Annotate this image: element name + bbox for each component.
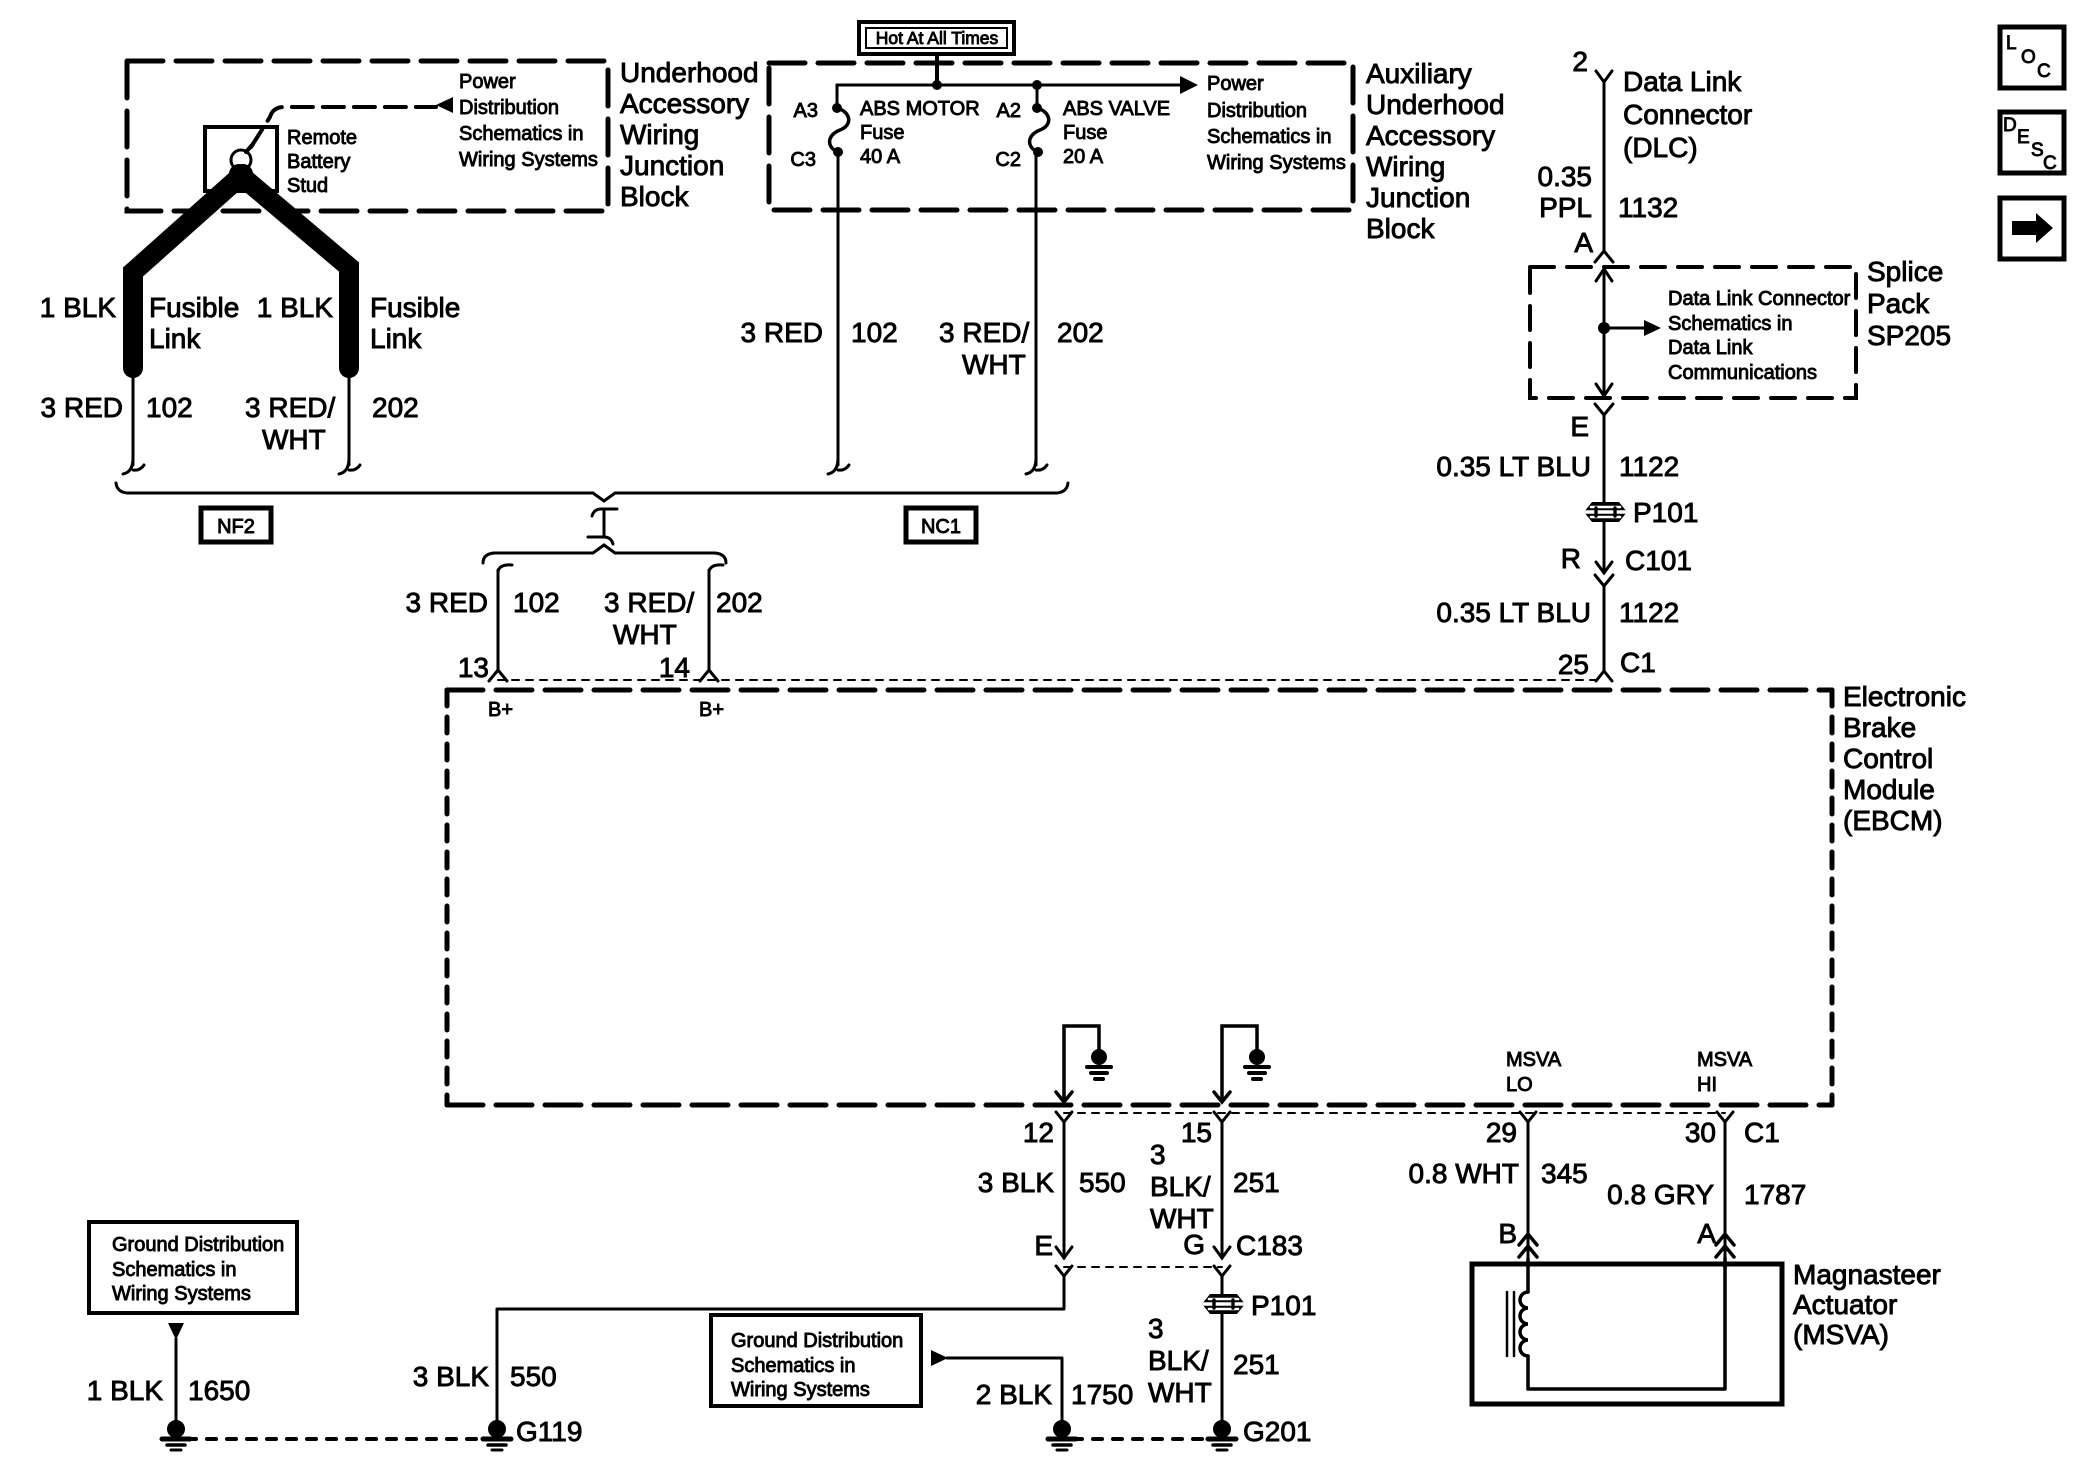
svg-text:C1: C1 xyxy=(1744,1117,1780,1148)
label: MSVA HI xyxy=(1697,1049,1753,1096)
label: A2 / C2 xyxy=(995,100,1021,171)
svg-text:1787: 1787 xyxy=(1744,1179,1806,1210)
svg-text:Schematics in: Schematics in xyxy=(1668,313,1793,335)
svg-text:ABS VALVE: ABS VALVE xyxy=(1063,98,1170,120)
svg-text:Block: Block xyxy=(620,181,689,212)
label: Ground Distribution Schematics in Wiring Systems (middle) xyxy=(731,1330,903,1401)
svg-text:1 BLK: 1 BLK xyxy=(40,292,117,323)
terminal A chevron xyxy=(1595,251,1613,262)
junction dot at hot feed xyxy=(932,80,942,90)
wire 550 pin 12 xyxy=(1063,1122,1066,1258)
svg-text:Communications: Communications xyxy=(1668,362,1817,384)
svg-text:Wiring: Wiring xyxy=(1366,151,1445,182)
wire end foot left xyxy=(123,458,144,474)
svg-text:BLK/: BLK/ xyxy=(1148,1345,1209,1376)
svg-text:D: D xyxy=(2003,115,2017,136)
ground symbol (1650) xyxy=(162,1420,190,1450)
DLC pin2 fork xyxy=(1596,71,1612,82)
svg-text:30: 30 xyxy=(1685,1117,1716,1148)
label: 2 BLK 1750 xyxy=(976,1379,1134,1410)
label: 3 BLK 550 (G119 wire) xyxy=(413,1361,557,1392)
label: Power Distribution Schematics in Wiring Systems (left) xyxy=(459,71,598,171)
svg-text:Junction: Junction xyxy=(620,150,724,181)
coil to bottom wire xyxy=(1528,1264,1725,1389)
right-pointing reference triangle xyxy=(1180,76,1198,94)
pin 30 fork xyxy=(1717,1112,1733,1122)
SECTION: top-left underhood block xyxy=(40,57,759,474)
wire 550 to G119 xyxy=(497,1276,1064,1422)
label: 3 BLK/ WHT 251 (lower) xyxy=(1148,1313,1280,1408)
svg-text:G119: G119 xyxy=(516,1416,582,1447)
svg-text:C2: C2 xyxy=(995,149,1021,171)
svg-text:Junction: Junction xyxy=(1366,182,1470,213)
svg-text:Power: Power xyxy=(1207,73,1264,95)
pin A double chevron xyxy=(1716,1234,1734,1257)
svg-text:Control: Control xyxy=(1843,743,1933,774)
svg-text:(MSVA): (MSVA) xyxy=(1793,1319,1889,1350)
svg-text:Power: Power xyxy=(459,71,516,93)
svg-text:Magnasteer: Magnasteer xyxy=(1793,1259,1941,1290)
svg-text:3 RED: 3 RED xyxy=(406,587,488,618)
svg-text:A3: A3 xyxy=(794,100,818,122)
svg-text:345: 345 xyxy=(1541,1158,1588,1189)
svg-text:Schematics in: Schematics in xyxy=(459,123,584,145)
ground link dashed line left xyxy=(187,1437,486,1441)
label: 0.35 LT BLU 1122 (lower) xyxy=(1436,597,1679,628)
svg-text:0.8 WHT: 0.8 WHT xyxy=(1409,1158,1519,1189)
label: 3 RED/WHT 202 (fuse wire) xyxy=(939,317,1104,380)
Ground Distribution box (left) xyxy=(89,1222,297,1313)
splice reference line xyxy=(1604,327,1645,330)
stud pigtail tick xyxy=(246,144,253,152)
fuse ABS MOTOR element xyxy=(830,108,849,152)
lower distribution brace xyxy=(483,545,726,563)
svg-text:PPL: PPL xyxy=(1539,192,1592,223)
svg-text:251: 251 xyxy=(1233,1167,1280,1198)
wire from Hot box down xyxy=(935,54,939,85)
wire 102 from left link xyxy=(132,372,135,465)
svg-text:WHT: WHT xyxy=(262,424,326,455)
label: 3 RED 102 (left wire) xyxy=(41,392,193,423)
wire 102 below fuse xyxy=(837,152,840,465)
svg-text:Wiring Systems: Wiring Systems xyxy=(731,1379,870,1401)
ground symbol G119 xyxy=(483,1420,511,1450)
svg-text:C: C xyxy=(2043,153,2057,174)
svg-text:1122: 1122 xyxy=(1619,451,1679,482)
SECTION: EBCM box xyxy=(447,681,1966,1422)
label: Ground Distribution Schematics in Wiring Systems (left) xyxy=(112,1234,284,1305)
svg-text:NC1: NC1 xyxy=(921,516,961,538)
svg-text:A: A xyxy=(1574,227,1593,258)
wire 1650 xyxy=(175,1339,178,1422)
svg-text:1 BLK: 1 BLK xyxy=(257,292,334,323)
EBCM dashed box top edge xyxy=(447,688,1832,693)
SECTION: braces and mid wires xyxy=(116,483,1604,683)
Underhood Accessory Wiring Junction Block dashed box xyxy=(127,61,608,211)
pass-through grommet P101 xyxy=(1584,502,1627,522)
svg-text:3: 3 xyxy=(1148,1313,1164,1344)
svg-text:13: 13 xyxy=(458,652,489,683)
wire 251 to P101 xyxy=(1221,1276,1224,1294)
label: 3 RED 102 (fuse wire) xyxy=(741,317,898,348)
svg-text:3 RED/: 3 RED/ xyxy=(604,587,694,618)
svg-text:SP205: SP205 xyxy=(1867,320,1951,351)
svg-text:2: 2 xyxy=(1572,46,1588,77)
svg-text:Data Link: Data Link xyxy=(1668,337,1753,359)
wire end foot xyxy=(1026,458,1047,474)
C101 arrow down xyxy=(1596,562,1612,573)
pin E arrow xyxy=(1056,1247,1072,1258)
svg-text:Wiring Systems: Wiring Systems xyxy=(112,1283,251,1305)
svg-text:Ground Distribution: Ground Distribution xyxy=(731,1330,903,1352)
svg-text:E: E xyxy=(2017,127,2030,148)
label: 3 RED 102 (pin 13 wire) xyxy=(406,587,560,618)
LOC legend box xyxy=(2000,27,2064,88)
C101 lower fork xyxy=(1595,575,1613,586)
wire to C101 xyxy=(1603,522,1606,572)
svg-text:Wiring Systems: Wiring Systems xyxy=(459,149,598,171)
svg-text:0.35 LT BLU: 0.35 LT BLU xyxy=(1436,451,1591,482)
label: 3 RED/WHT 202 (pin 14 wire) xyxy=(604,587,763,650)
svg-text:P101: P101 xyxy=(1633,497,1698,528)
svg-text:Wiring: Wiring xyxy=(620,119,699,150)
label: Fusible Link (right) xyxy=(370,292,460,354)
pin 25 end fork xyxy=(1596,671,1612,681)
wire 1122 upper xyxy=(1603,414,1606,502)
svg-text:A2: A2 xyxy=(997,100,1021,122)
svg-text:1122: 1122 xyxy=(1619,597,1679,628)
label: Data Link Connector (DLC) xyxy=(1623,66,1752,163)
svg-text:MSVA: MSVA xyxy=(1697,1049,1753,1071)
svg-text:Accessory: Accessory xyxy=(1366,120,1495,151)
svg-text:3 RED: 3 RED xyxy=(41,392,123,423)
junction dot left link xyxy=(129,368,137,376)
pin 12 fork xyxy=(1056,1112,1072,1122)
svg-text:Module: Module xyxy=(1843,774,1935,805)
wire 102 to pin 13 xyxy=(498,565,512,572)
svg-text:1750: 1750 xyxy=(1071,1379,1133,1410)
bus brace NF2/NC1 xyxy=(116,483,1068,501)
svg-text:Schematics in: Schematics in xyxy=(1207,126,1332,148)
svg-text:L: L xyxy=(2006,33,2017,54)
pin G lower fork xyxy=(1214,1266,1230,1276)
svg-text:Electronic: Electronic xyxy=(1843,681,1966,712)
pin 29 fork xyxy=(1520,1112,1536,1122)
forward arrow glyph xyxy=(2012,213,2053,243)
dashed reference wire to power distribution note xyxy=(251,107,436,147)
pin 13 end fork xyxy=(489,670,507,681)
wire 1122 lower xyxy=(1603,586,1606,672)
branch into ABS VALVE fuse xyxy=(1036,85,1039,104)
svg-text:3 BLK: 3 BLK xyxy=(413,1361,490,1392)
label: Magnasteer Actuator (MSVA) xyxy=(1793,1259,1941,1350)
svg-text:WHT: WHT xyxy=(1148,1377,1212,1408)
label: Splice Pack SP205 xyxy=(1867,256,1951,351)
svg-text:1132: 1132 xyxy=(1618,192,1678,223)
wire 345 pin 29 xyxy=(1527,1122,1530,1264)
C1 connector line (top, thin dashed) xyxy=(498,679,1604,681)
svg-text:0.8 GRY: 0.8 GRY xyxy=(1607,1179,1714,1210)
pin B double chevron xyxy=(1519,1234,1537,1257)
svg-text:Distribution: Distribution xyxy=(459,97,559,119)
label: 3 BLK 550 xyxy=(978,1167,1126,1198)
bus wire to power distribution arrow xyxy=(837,84,1182,87)
svg-text:202: 202 xyxy=(716,587,763,618)
svg-text:102: 102 xyxy=(146,392,193,423)
svg-text:Schematics in: Schematics in xyxy=(731,1355,856,1377)
splice continuation symbol xyxy=(588,509,617,544)
svg-text:A: A xyxy=(1697,1218,1716,1249)
forward arrow legend box xyxy=(2000,198,2064,259)
svg-text:MSVA: MSVA xyxy=(1506,1049,1562,1071)
svg-text:Distribution: Distribution xyxy=(1207,100,1307,122)
svg-text:BLK/: BLK/ xyxy=(1150,1171,1211,1202)
svg-text:Connector: Connector xyxy=(1623,99,1752,130)
label: Remote Battery Stud xyxy=(287,127,357,197)
svg-text:Data Link: Data Link xyxy=(1623,66,1742,97)
fusible link right (thick) xyxy=(239,174,349,368)
wire 202 from right link xyxy=(348,372,351,465)
svg-text:Link: Link xyxy=(370,323,422,354)
svg-text:202: 202 xyxy=(372,392,419,423)
label: 3 BLK/ WHT 251 xyxy=(1150,1139,1280,1234)
svg-text:2 BLK: 2 BLK xyxy=(976,1379,1053,1410)
svg-text:C183: C183 xyxy=(1236,1230,1303,1261)
fusible link left (thick) xyxy=(133,174,243,368)
wire 1132 DLC to splice xyxy=(1603,82,1606,251)
svg-text:550: 550 xyxy=(510,1361,557,1392)
svg-text:B: B xyxy=(1498,1218,1517,1249)
wire 251 pin 15 xyxy=(1221,1122,1224,1258)
svg-text:Underhood: Underhood xyxy=(620,57,759,88)
svg-text:Data Link Connector: Data Link Connector xyxy=(1668,288,1851,310)
svg-text:Splice: Splice xyxy=(1867,256,1943,287)
splice internal wire with arrows xyxy=(1603,268,1606,397)
label: ABS MOTOR Fuse 40 A xyxy=(860,98,980,168)
terminal E fork xyxy=(1595,404,1613,415)
svg-text:12: 12 xyxy=(1023,1117,1054,1148)
svg-text:Accessory: Accessory xyxy=(620,88,749,119)
svg-text:Schematics in: Schematics in xyxy=(112,1259,237,1281)
svg-text:Fuse: Fuse xyxy=(1063,122,1107,144)
remote battery stud circle xyxy=(231,150,251,170)
label: Auxiliary Underhood Accessory Wiring Junction Block xyxy=(1366,58,1505,244)
label: A3 / C3 xyxy=(790,100,818,171)
label: 0.35 LT BLU 1122 (upper) xyxy=(1436,451,1679,482)
Ground Distribution box (middle) xyxy=(711,1315,921,1406)
C1 connector line (bottom, thin dashed) xyxy=(1064,1112,1725,1114)
svg-text:Pack: Pack xyxy=(1867,288,1930,319)
Hot At All Times box (double border) xyxy=(859,22,1014,54)
svg-text:3 RED/: 3 RED/ xyxy=(245,392,335,423)
wire end foot right xyxy=(339,458,360,474)
internal ground symbol (pin 12) xyxy=(1091,1049,1107,1065)
SECTION: bottom grounds xyxy=(87,1222,1312,1450)
wire 1750 xyxy=(947,1358,1062,1422)
svg-text:WHT: WHT xyxy=(613,619,677,650)
Magnasteer Actuator box xyxy=(1472,1264,1782,1404)
svg-text:Underhood: Underhood xyxy=(1366,89,1505,120)
pin 15 arrow into edge xyxy=(1214,1092,1230,1102)
svg-text:Brake: Brake xyxy=(1843,712,1916,743)
C183 connector line (thin dashed) xyxy=(1064,1266,1222,1268)
svg-text:Fusible: Fusible xyxy=(370,292,460,323)
svg-text:B+: B+ xyxy=(699,699,724,721)
label: 3 RED/WHT 202 (right wire) xyxy=(245,392,419,455)
svg-text:40 A: 40 A xyxy=(860,146,901,168)
fuse ABS VALVE element xyxy=(1030,108,1049,152)
SECTION: right DLC column xyxy=(1436,27,2064,681)
wire A into box xyxy=(1723,1258,1727,1268)
wire B into coil xyxy=(1526,1258,1530,1292)
wire 202 to pin 14 xyxy=(709,565,723,572)
fuse ABS MOTOR terminals xyxy=(832,103,842,113)
DESC legend box xyxy=(2000,112,2064,173)
svg-text:3 RED/: 3 RED/ xyxy=(939,317,1029,348)
svg-text:HI: HI xyxy=(1697,1074,1717,1096)
svg-text:102: 102 xyxy=(851,317,898,348)
svg-text:(DLC): (DLC) xyxy=(1623,132,1698,163)
svg-text:G201: G201 xyxy=(1243,1416,1312,1447)
reference triangle down xyxy=(168,1323,184,1340)
EBCM dashed box left edge xyxy=(445,690,450,1105)
branch into ABS MOTOR fuse xyxy=(836,85,839,104)
Auxiliary Underhood dashed box xyxy=(769,63,1353,210)
svg-text:0.35: 0.35 xyxy=(1538,161,1593,192)
junction dot right link xyxy=(345,368,353,376)
svg-text:29: 29 xyxy=(1486,1117,1517,1148)
fuse ABS VALVE terminals xyxy=(1032,103,1042,113)
pin 15 fork xyxy=(1214,1112,1230,1122)
pin 14 end fork xyxy=(700,670,718,681)
svg-text:3 RED: 3 RED xyxy=(741,317,823,348)
ground symbol (1750) xyxy=(1048,1420,1076,1450)
label: Data Link Connector Schematics in Data Link Communications xyxy=(1668,288,1851,384)
junction dot at valve branch xyxy=(1032,80,1042,90)
svg-text:G: G xyxy=(1183,1229,1205,1260)
svg-text:C3: C3 xyxy=(790,149,816,171)
label: Underhood Accessory Wiring Junction Block xyxy=(620,57,759,212)
svg-text:Wiring Systems: Wiring Systems xyxy=(1207,152,1346,174)
svg-text:15: 15 xyxy=(1181,1117,1212,1148)
svg-text:ABS MOTOR: ABS MOTOR xyxy=(860,98,980,120)
pin G arrow xyxy=(1214,1247,1230,1258)
svg-text:Auxiliary: Auxiliary xyxy=(1366,58,1472,89)
wire end foot xyxy=(828,458,849,474)
ground symbol G201 xyxy=(1208,1420,1236,1450)
svg-text:25: 25 xyxy=(1558,649,1589,680)
pin 12 arrow into edge xyxy=(1056,1092,1072,1102)
svg-text:C: C xyxy=(2037,61,2051,82)
label: MSVA LO xyxy=(1506,1049,1562,1096)
svg-text:WHT: WHT xyxy=(962,349,1026,380)
svg-text:20 A: 20 A xyxy=(1063,146,1104,168)
svg-text:O: O xyxy=(2021,47,2036,68)
svg-text:102: 102 xyxy=(513,587,560,618)
svg-text:Link: Link xyxy=(149,323,201,354)
svg-text:3: 3 xyxy=(1150,1139,1166,1170)
svg-text:Actuator: Actuator xyxy=(1793,1289,1897,1320)
label: 1 BLK 1650 xyxy=(87,1375,251,1406)
svg-text:(EBCM): (EBCM) xyxy=(1843,805,1943,836)
remote battery stud box xyxy=(205,127,277,191)
pass-through grommet P101 (lower) xyxy=(1202,1294,1245,1314)
svg-text:Stud: Stud xyxy=(287,175,328,197)
wire 251 to G201 xyxy=(1221,1314,1224,1422)
splice junction dot xyxy=(1598,322,1610,334)
svg-text:Ground Distribution: Ground Distribution xyxy=(112,1234,284,1256)
MSVA coil xyxy=(1520,1292,1528,1356)
svg-text:1650: 1650 xyxy=(188,1375,250,1406)
left-pointing reference triangle xyxy=(436,97,453,113)
label: 0.35 PPL 1132 xyxy=(1538,161,1679,223)
svg-text:202: 202 xyxy=(1057,317,1104,348)
label: 0.8 GRY 1787 xyxy=(1607,1179,1806,1210)
svg-text:P101: P101 xyxy=(1251,1290,1316,1321)
svg-text:Fusible: Fusible xyxy=(149,292,239,323)
svg-text:Hot At All Times: Hot At All Times xyxy=(876,28,999,48)
internal ground hook (pin 12) xyxy=(1064,1026,1099,1100)
svg-text:C101: C101 xyxy=(1625,545,1692,576)
SECTION: magnasteer xyxy=(1472,1258,1941,1404)
EBCM dashed box right edge xyxy=(1830,690,1835,1105)
label: Power Distribution Schematics in Wiring Systems (right) xyxy=(1207,73,1346,174)
label: ABS VALVE Fuse 20 A xyxy=(1063,98,1170,168)
svg-text:B+: B+ xyxy=(488,699,513,721)
svg-text:LO: LO xyxy=(1506,1074,1533,1096)
svg-text:14: 14 xyxy=(659,652,690,683)
svg-text:E: E xyxy=(1034,1230,1053,1261)
svg-text:550: 550 xyxy=(1079,1167,1126,1198)
NF2 box xyxy=(201,508,271,542)
svg-text:C1: C1 xyxy=(1620,647,1656,678)
label: 0.8 WHT 345 xyxy=(1409,1158,1588,1189)
SECTION: top-middle aux block xyxy=(741,22,1505,474)
label: Fusible Link (left) xyxy=(149,292,239,354)
svg-text:Fuse: Fuse xyxy=(860,122,904,144)
wire 1787 pin 30 xyxy=(1724,1122,1727,1264)
svg-text:S: S xyxy=(2031,140,2044,161)
svg-text:Battery: Battery xyxy=(287,151,350,173)
wire 202 below fuse xyxy=(1035,152,1038,465)
svg-text:R: R xyxy=(1561,543,1581,574)
internal ground hook (pin 15) xyxy=(1222,1026,1257,1100)
Splice Pack SP205 dashed box xyxy=(1530,267,1856,398)
svg-text:E: E xyxy=(1570,411,1589,442)
ground link dashed line right xyxy=(1073,1437,1212,1441)
svg-text:Remote: Remote xyxy=(287,127,357,149)
reference triangle right xyxy=(931,1350,948,1366)
right-pointing reference triangle xyxy=(1644,320,1661,336)
svg-text:Block: Block xyxy=(1366,213,1435,244)
svg-text:NF2: NF2 xyxy=(217,516,255,538)
label: Electronic Brake Control Module (EBCM) xyxy=(1843,681,1966,836)
svg-text:1 BLK: 1 BLK xyxy=(87,1375,164,1406)
pin E lower fork xyxy=(1056,1266,1072,1276)
EBCM dashed box bottom edge xyxy=(447,1103,1832,1108)
internal ground symbol (pin 15) xyxy=(1249,1049,1265,1065)
svg-text:251: 251 xyxy=(1233,1349,1280,1380)
svg-text:0.35 LT BLU: 0.35 LT BLU xyxy=(1436,597,1591,628)
svg-text:3 BLK: 3 BLK xyxy=(978,1167,1055,1198)
coil core lines xyxy=(1506,1292,1509,1356)
NC1 box xyxy=(906,508,976,542)
